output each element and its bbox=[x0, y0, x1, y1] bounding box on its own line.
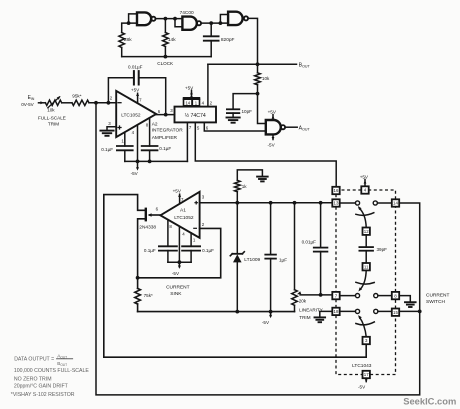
ground at A2 pin 3 bbox=[107, 127, 116, 131]
pin box 16 bbox=[332, 187, 339, 194]
op-amp A1 LTC1052 (current sink) bbox=[160, 192, 199, 238]
G1 input tie bracket bbox=[129, 14, 137, 23]
svg-text:0V-5V: 0V-5V bbox=[21, 102, 34, 107]
wire 10k junction down to Aout gate input 1 bbox=[258, 94, 266, 124]
svg-text:0.1µF: 0.1µF bbox=[159, 146, 171, 151]
resistor 75k* bbox=[135, 288, 141, 304]
switch S2 swing arc bbox=[356, 282, 374, 284]
pin box 12 bbox=[363, 228, 370, 235]
wire G1 output to G2 bbox=[156, 18, 176, 20]
-5V at G4 bbox=[272, 134, 274, 139]
node: 1uF top bbox=[269, 201, 273, 205]
ground below 10pF bbox=[232, 113, 234, 117]
svg-text:-5V: -5V bbox=[358, 385, 366, 390]
pin box 7 bbox=[332, 292, 339, 299]
pin box 15 bbox=[392, 309, 399, 316]
svg-text:14: 14 bbox=[185, 100, 190, 105]
pin box 14 bbox=[184, 99, 193, 106]
svg-text:DATA OUTPUT =: DATA OUTPUT = bbox=[14, 356, 54, 362]
svg-text:+5V: +5V bbox=[173, 188, 182, 193]
svg-text:16: 16 bbox=[334, 188, 339, 193]
node: 0.01uF top bbox=[319, 201, 323, 205]
node: 10k bottom junction bbox=[256, 92, 260, 96]
capacitor 1uF bbox=[270, 203, 272, 255]
svg-text:0.1µF: 0.1µF bbox=[101, 147, 113, 152]
svg-text:100,000 COUNTS FULL-SCALE: 100,000 COUNTS FULL-SCALE bbox=[14, 368, 90, 374]
wire A1 pin 3 bus (reference node) bbox=[200, 202, 332, 204]
Q1 source down through 75k bbox=[138, 219, 146, 289]
svg-text:+5V: +5V bbox=[360, 174, 369, 179]
node A: input summing junction bbox=[94, 101, 98, 105]
svg-text:FULL-SCALE: FULL-SCALE bbox=[38, 115, 66, 120]
node: 20k top bbox=[293, 201, 297, 205]
svg-text:+5V: +5V bbox=[268, 109, 277, 114]
svg-text:NO ZERO TRIM: NO ZERO TRIM bbox=[14, 376, 52, 382]
svg-text:12: 12 bbox=[364, 229, 369, 234]
pin box 3 bbox=[363, 337, 370, 344]
svg-text:½ 74C74: ½ 74C74 bbox=[185, 112, 206, 119]
A1 pin 4 to -5V bbox=[178, 226, 180, 262]
A2 pin 1 and 0.1uF cap bbox=[124, 132, 126, 146]
svg-text:+5V: +5V bbox=[185, 85, 194, 90]
NAND gate G4 (Aout) bbox=[266, 120, 281, 134]
node: A1 bottom rail left junction bbox=[136, 276, 140, 280]
-5V at pin 17 bbox=[365, 378, 367, 381]
Q1 drain loop to switch pin 3 line bbox=[104, 195, 366, 358]
svg-text:A1: A1 bbox=[180, 208, 186, 214]
A2 pin 8 and 0.1uF cap bbox=[149, 118, 151, 146]
wire pin18 to S3 left contact bbox=[340, 310, 356, 312]
svg-text:LTC1052: LTC1052 bbox=[174, 215, 194, 221]
capacitor 820pF bbox=[210, 23, 212, 36]
switch S3 left contact bbox=[355, 309, 359, 313]
NAND gate G2 (74C00 section 2) bbox=[182, 17, 196, 30]
svg-text:28k: 28k bbox=[124, 37, 132, 43]
wire A2 -5V rail bbox=[125, 160, 188, 162]
svg-text:74C00: 74C00 bbox=[180, 10, 194, 16]
capacitor 0.01uF bbox=[320, 203, 322, 248]
wire Bout bus bbox=[208, 63, 297, 65]
ground at pin 8 bbox=[399, 296, 410, 303]
svg-text:+5V: +5V bbox=[131, 87, 140, 92]
A1 pin 7 +5V bbox=[179, 194, 181, 203]
G3 input tie bracket bbox=[220, 15, 228, 24]
wire input Ein bbox=[39, 102, 46, 104]
svg-text:LTC1043: LTC1043 bbox=[352, 363, 372, 369]
switch S1 left contact bbox=[355, 201, 359, 205]
node: A2 output junction bbox=[164, 113, 168, 117]
node: pin 15 tap on feedback vertical bbox=[399, 310, 420, 312]
resistor 28k bbox=[119, 33, 125, 48]
node: 1k-LT1009 junction on pin3 bus bbox=[235, 201, 239, 205]
pin box 8 bbox=[392, 292, 399, 299]
switch S3 swing arc bbox=[356, 322, 374, 325]
svg-text:11: 11 bbox=[364, 264, 369, 269]
wire pin 14 to right feedback vertical; long loop to input node A bbox=[96, 103, 420, 395]
svg-text:-5V: -5V bbox=[262, 320, 270, 325]
op-amp A2 LTC1052 bbox=[116, 91, 156, 137]
wire pin7 to S2 left contact bbox=[340, 295, 356, 297]
svg-text:SWITCH: SWITCH bbox=[426, 299, 445, 305]
svg-text:1µF: 1µF bbox=[279, 258, 287, 263]
capacitor 10pF bbox=[227, 108, 239, 110]
resistor 14k bbox=[164, 19, 166, 33]
capacitor 0.01uF (integrator feedback) bbox=[133, 71, 135, 84]
svg-text:14: 14 bbox=[393, 201, 398, 206]
wire 95k to A2 inverting input bbox=[89, 102, 116, 104]
wire -5V rail (mid) bbox=[138, 311, 295, 313]
node: 0.01uF bottom on wiper line bbox=[319, 293, 323, 297]
wire pin 5 down and right (bus to LTC1043 pin 16) bbox=[195, 122, 336, 186]
switch S1 swing arc bbox=[356, 213, 374, 216]
svg-text:0.1µF: 0.1µF bbox=[202, 248, 214, 253]
svg-text:CURRENT: CURRENT bbox=[166, 284, 190, 290]
wire pin 6 to Aout gate bbox=[204, 122, 265, 131]
svg-text:AMPLIFIER: AMPLIFIER bbox=[152, 135, 178, 141]
A1 pin 8 and 0.1uF cap bbox=[167, 220, 169, 247]
svg-text:39pF: 39pF bbox=[377, 247, 388, 252]
svg-text:TRIM: TRIM bbox=[299, 315, 310, 320]
svg-text:CURRENT: CURRENT bbox=[426, 292, 450, 298]
switch S1 arm bbox=[359, 208, 366, 228]
svg-text:0.1µF: 0.1µF bbox=[144, 248, 156, 253]
wire clock rail bbox=[122, 56, 212, 58]
svg-text:LT1009: LT1009 bbox=[244, 257, 260, 263]
node: G1 input junction bbox=[127, 21, 131, 25]
wire S2 right contact to pin 8 bbox=[378, 295, 392, 297]
svg-text:820pF: 820pF bbox=[221, 37, 235, 43]
node: feedback tap bbox=[107, 101, 111, 105]
pin box 17 bbox=[363, 371, 370, 378]
resistor 95k* bbox=[72, 100, 89, 105]
wire pin13 to switch S1 left contact bbox=[340, 202, 356, 204]
wire G1 input feed from 28k bbox=[122, 23, 129, 32]
switch S1 right contact bbox=[373, 201, 377, 205]
wire pin16 entry is drawn above; dashed outline LTC1043 bbox=[335, 194, 337, 199]
pin box 14 bbox=[392, 199, 399, 206]
wire pot to 95k bbox=[62, 102, 72, 104]
-5V marker mid rail bbox=[270, 312, 272, 316]
pin box 18 bbox=[332, 308, 339, 315]
NAND gate G3 (74C00 section 3) bbox=[228, 12, 243, 25]
svg-text:1k: 1k bbox=[242, 184, 248, 189]
svg-text:*VISHAY S-102 RESISTOR: *VISHAY S-102 RESISTOR bbox=[11, 392, 75, 398]
-5V marker A2 bbox=[137, 161, 139, 168]
svg-text:INTEGRATOR: INTEGRATOR bbox=[152, 127, 184, 133]
pin box 4 bbox=[361, 186, 368, 193]
NAND gate G1 (74C00 section 1) bbox=[137, 12, 151, 25]
wire feedback to 0.01uF bbox=[108, 78, 133, 103]
wire A1 pin 2 loop bbox=[138, 228, 221, 277]
svg-text:17: 17 bbox=[364, 372, 369, 377]
wire pin 2 up to Bout bus bbox=[207, 64, 209, 106]
flip-flop U2 1/2 74C74 bbox=[175, 107, 217, 123]
svg-text:13: 13 bbox=[334, 201, 339, 206]
A2 pin 4 bbox=[137, 125, 139, 161]
wire G2 output to G3 bbox=[201, 22, 220, 24]
wire S1 right contact to pin 14 bbox=[377, 202, 391, 204]
node: +5V bar junction bbox=[190, 96, 193, 99]
svg-text:A2: A2 bbox=[152, 121, 158, 127]
resistor 10k bbox=[257, 64, 259, 73]
svg-text:95k*: 95k* bbox=[72, 94, 81, 99]
svg-text:75k*: 75k* bbox=[144, 293, 153, 298]
svg-text:20ppm/°C GAIN DRIFT: 20ppm/°C GAIN DRIFT bbox=[14, 384, 69, 390]
wire caps bottom connector bbox=[168, 261, 191, 263]
ground at pin 18 bbox=[320, 311, 333, 317]
svg-text:20k: 20k bbox=[299, 299, 307, 304]
svg-text:0.01µF: 0.01µF bbox=[128, 65, 143, 70]
svg-text:0.01µF: 0.01µF bbox=[302, 240, 317, 245]
capacitor 39pF bbox=[365, 235, 367, 247]
svg-text:18: 18 bbox=[334, 309, 339, 314]
A1 pin 1 and 0.1uF cap bbox=[190, 233, 192, 246]
potentiometer 20k LINEARITY TRIM bbox=[294, 203, 296, 290]
node: G2 input junction bbox=[173, 17, 177, 21]
switch S2 right contact bbox=[374, 294, 378, 298]
svg-text:LTC1052: LTC1052 bbox=[121, 113, 141, 119]
svg-text:15: 15 bbox=[393, 310, 398, 315]
svg-text:-5V: -5V bbox=[131, 171, 139, 176]
svg-text:SINK: SINK bbox=[170, 291, 182, 297]
A2 pin 7 +5V bbox=[137, 93, 139, 103]
svg-text:CLOCK: CLOCK bbox=[157, 61, 174, 66]
switch S2 left contact bbox=[355, 294, 359, 298]
wire G3 output down to Bout bus bbox=[248, 18, 257, 64]
wire S3 right contact to pin 15 bbox=[378, 310, 392, 312]
switch S3 right contact bbox=[374, 309, 378, 313]
svg-text:10pF: 10pF bbox=[242, 109, 253, 114]
switch S2 arm from pin 11 bbox=[361, 270, 366, 288]
node: G3 input junction bbox=[219, 21, 223, 25]
svg-text:-5V: -5V bbox=[268, 142, 276, 147]
svg-text:-5V: -5V bbox=[172, 271, 180, 276]
switch S3 arm to pin 3 box bbox=[359, 317, 366, 337]
potentiometer 10k FULL-SCALE TRIM bbox=[45, 100, 61, 105]
svg-text:2N4338: 2N4338 bbox=[139, 225, 156, 231]
wire pin 7 down to -5V rail bbox=[186, 122, 188, 161]
pin box 1 bbox=[192, 99, 199, 106]
wire to 10pF bbox=[233, 94, 257, 110]
-5V marker A1 bbox=[178, 262, 180, 266]
pin box 11 bbox=[363, 263, 370, 270]
svg-text:14k: 14k bbox=[168, 37, 176, 43]
transistor Q1 2N4338 JFET channel bbox=[145, 209, 147, 220]
wire A1 output pin 6 to JFET gate bbox=[150, 214, 161, 216]
node: G3 output on Bout bus bbox=[256, 62, 260, 66]
svg-text:10k: 10k bbox=[262, 76, 270, 81]
G2 input tie bracket bbox=[175, 19, 182, 27]
wire A2 output pin 6 bbox=[156, 114, 174, 116]
node: 14k top junction bbox=[164, 17, 168, 21]
zener LT1009 bbox=[236, 203, 238, 254]
resistor 1k to ground bbox=[236, 192, 238, 203]
svg-text:10k: 10k bbox=[47, 108, 55, 113]
node: 14k bottom on clock rail bbox=[164, 55, 168, 59]
node: 820pF top junction bbox=[209, 21, 213, 25]
wire G4 output Aout bbox=[285, 126, 297, 128]
svg-text:SeekIC.com: SeekIC.com bbox=[403, 396, 456, 407]
wire 0.01uF to A2 output bbox=[139, 78, 166, 115]
pin box 13 bbox=[332, 199, 339, 206]
20k wiper to LTC1043 pin 7 bbox=[297, 291, 301, 294]
svg-text:TRIM: TRIM bbox=[48, 122, 59, 127]
